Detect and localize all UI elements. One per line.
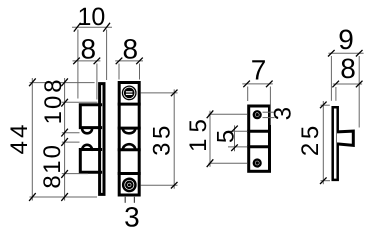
dim line 8 (part A front top) [115, 60, 143, 62]
dim line 15 [209, 111, 211, 167]
part A front view: bottom screw (head with rings) [122, 178, 137, 193]
ext: part B top hole upper tangent (right) [263, 111, 275, 113]
ext: part A flange tip vertical [77, 30, 79, 99]
ext: part B front left edge vertical [247, 87, 249, 102]
ext: part A plate inner vertical [96, 64, 98, 100]
svg-text:5: 5 [297, 126, 324, 139]
part B front view: rail above hook band [249, 130, 270, 133]
ext: part A front right edge vertical [139, 64, 141, 80]
ext: part A front left edge vertical [118, 64, 120, 80]
svg-text:2: 2 [297, 143, 324, 156]
ext: part B side bar bottom (left) [321, 180, 331, 182]
dim line 10 (part A top) [72, 26, 112, 28]
dim line 8 (part A side top) [73, 60, 101, 62]
ext: part B front right edge vertical [269, 87, 271, 126]
svg-text:5: 5 [212, 130, 239, 143]
ticks on 35 dim [171, 90, 178, 97]
svg-text:4: 4 [6, 141, 33, 154]
dim line 25 [322, 101, 324, 184]
ext: part B bottom hole centre (left) [209, 162, 248, 164]
ticks on 5 dim [231, 126, 238, 133]
dim line 35 [173, 89, 175, 188]
ext: part A flange top [62, 101, 98, 103]
dim line 5 [234, 125, 236, 151]
part A side view: lower flange box [80, 150, 100, 173]
svg-text:1: 1 [185, 139, 212, 152]
part A side view: upper knuckle arc (bulge down) [82, 129, 92, 133]
ext: part B hook band bottom (left) [228, 146, 248, 148]
ext: part A lower arc top [62, 141, 80, 143]
part B front view: bottom hole [253, 158, 262, 167]
svg-text:8: 8 [123, 34, 139, 65]
svg-text:9: 9 [338, 24, 354, 55]
ticks on 25 dim [320, 102, 327, 109]
part B side view: plate bar (double line) [333, 107, 338, 180]
part A side view: lower knuckle arc (bulge up) [82, 145, 92, 150]
part A front view: rail above knuckle band [119, 127, 139, 130]
ticks on 44 dim [29, 78, 36, 86]
svg-text:4: 4 [6, 125, 33, 138]
svg-text:8: 8 [40, 79, 67, 92]
ticks on 7 dim [243, 81, 250, 88]
thin extension lines [30, 30, 360, 203]
dim line 44 [31, 78, 33, 201]
ext: part A lower flange bottom [62, 173, 88, 175]
ext: part B top hole centre (left) [209, 113, 248, 115]
dim line 9 (part B side top) [328, 52, 363, 54]
part A front view: top screw (head with slot) [122, 86, 137, 101]
ticks on 15 dim [207, 110, 214, 118]
oblique tick marks [29, 23, 362, 201]
ticks on 8 dim (part B side) [332, 81, 339, 88]
dim line 7 (part B top) [242, 83, 272, 85]
part A front view: rail above bottom hole [119, 172, 139, 175]
part B front view: rail below hook band [249, 145, 270, 148]
svg-text:5: 5 [185, 119, 212, 132]
part A front view: rail below top hole [119, 103, 139, 106]
svg-text:10: 10 [77, 3, 105, 31]
dimension lines [32, 27, 363, 200]
ext: part A upper arc bottom [62, 132, 80, 134]
ext: part B side hook tip vertical [358, 56, 360, 128]
ext: part B hook band top (left) [228, 130, 248, 132]
part A front view: lower knuckle arc (bulge up) [123, 144, 135, 149]
svg-text:3: 3 [270, 107, 297, 120]
svg-text:3: 3 [124, 202, 140, 233]
ext: part A bottom screw centre [141, 184, 178, 186]
part A front view: upper knuckle arc (bulge down) [123, 129, 135, 133]
part A front view: outer rectangle [119, 83, 139, 196]
ext: part A top edge to 44/left dim [30, 82, 95, 84]
svg-text:7: 7 [251, 54, 267, 85]
part B front view: top hole [253, 110, 262, 119]
part A side view: upper flange box [80, 105, 100, 128]
svg-text:3: 3 [148, 143, 175, 156]
svg-text:8: 8 [81, 34, 97, 65]
ticks on 10 dim [74, 23, 81, 32]
svg-text:8: 8 [39, 175, 66, 188]
part A side view: leaf plate (double line) [100, 84, 104, 195]
part A front view: rail below knuckle band [119, 148, 139, 151]
svg-text:10: 10 [40, 94, 67, 125]
ticks on 8 dim (side) [73, 58, 80, 65]
dim line 8/10/10/8 (part A left stack) [64, 78, 66, 201]
dim line 8 (part B side) [333, 83, 362, 85]
ticks on 9 dim [328, 50, 335, 57]
ext: part B side bar right vertical [335, 87, 337, 101]
ext: part A bottom hole right tangent [133, 197, 135, 203]
ext: part A plate outer vertical [106, 30, 108, 81]
ext: part B side bar top (left) [321, 104, 330, 106]
ext: part B top hole lower tangent (right) [263, 117, 275, 119]
ext: part A bottom edge [30, 196, 98, 198]
ticks on left stack dim [61, 78, 68, 86]
svg-text:5: 5 [148, 126, 175, 139]
ext: part B side bar left vertical [330, 56, 332, 101]
part B front view: outer rectangle [249, 106, 270, 171]
ext: part A bottom hole left tangent [124, 197, 126, 203]
ticks on 8 dim (front) [116, 58, 123, 65]
svg-text:10: 10 [39, 143, 66, 174]
ext: part A top screw centre [141, 92, 178, 94]
part B side view: hook tab [337, 131, 353, 145]
svg-text:8: 8 [340, 53, 356, 84]
